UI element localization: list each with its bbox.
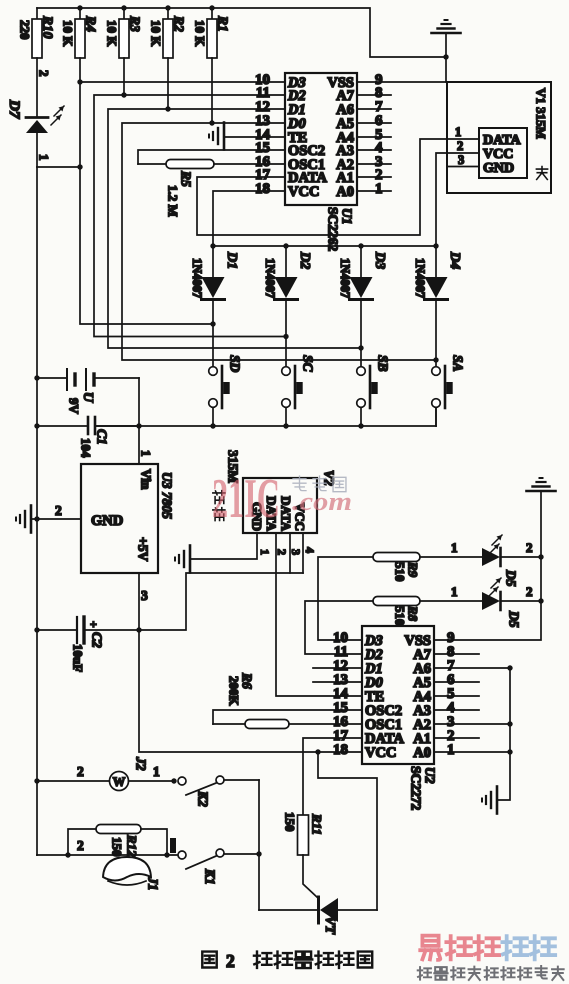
U1 pin label DATA — [288, 170, 327, 186]
wire: U1 pin 5 stub — [357, 136, 391, 138]
svg-text:10 K: 10 K — [61, 20, 76, 47]
resistor R8 (510) — [305, 597, 421, 655]
U2 pin label DATA — [365, 731, 404, 747]
node: J2/K2 junction — [171, 778, 176, 783]
U1 pin label A1 — [336, 170, 354, 186]
U1 pin number 1 — [375, 181, 383, 197]
node: diode bus junction — [433, 243, 438, 248]
U2 pin label A6 — [413, 661, 431, 677]
receiver pin 3 wire — [289, 533, 303, 573]
node: address bus junction — [507, 721, 512, 726]
wire: U1 pin 6 stub — [357, 122, 391, 124]
node: bottom bus junction — [358, 423, 363, 428]
U2 pin number 2 — [447, 728, 455, 744]
node: R4 bottom junction — [77, 79, 82, 84]
svg-text:SC: SC — [300, 355, 315, 373]
node: address bus junction — [507, 665, 512, 670]
svg-text:10 K: 10 K — [193, 20, 208, 47]
U2 pin number 15 — [333, 700, 348, 716]
svg-text:U3 7805: U3 7805 — [159, 472, 174, 519]
U2 pin number 17 — [333, 728, 349, 744]
node: junction on D4 column — [433, 357, 438, 362]
switch K1 — [178, 849, 259, 885]
svg-text:10uF: 10uF — [71, 644, 86, 672]
U1 pin label A7 — [336, 88, 354, 104]
U1 pin label D0 — [287, 116, 306, 132]
svg-text:2: 2 — [275, 549, 289, 555]
svg-text:C2: C2 — [89, 632, 104, 648]
wire: left ground rail — [36, 167, 38, 855]
resistor R10 (220) — [18, 8, 56, 116]
U2 pin number 9 — [447, 630, 455, 646]
U1 pin number 15 — [255, 140, 270, 156]
wire: U2 pin 1 to address ground bus — [434, 751, 510, 753]
svg-text:.com: .com — [292, 487, 352, 516]
pushbutton key SC — [282, 355, 316, 426]
U2 pin number 11 — [334, 644, 348, 660]
svg-text:A0: A0 — [413, 745, 431, 761]
U1 pin label A0 — [336, 184, 354, 200]
U1 pin number 2 — [375, 167, 383, 183]
svg-text:R2: R2 — [171, 15, 186, 32]
svg-text:2: 2 — [226, 951, 235, 971]
node: rail/C1 junction — [34, 423, 39, 428]
U1 pin number 8 — [375, 85, 383, 101]
svg-text:VCC: VCC — [483, 147, 513, 162]
pushbutton key SB — [357, 355, 391, 426]
svg-text:150: 150 — [110, 837, 125, 857]
receiver label DATA — [279, 496, 294, 532]
wire: U2 pin 4 stub — [434, 709, 479, 711]
U2 reference label — [408, 766, 437, 811]
svg-text:3: 3 — [141, 588, 148, 603]
svg-text:K1: K1 — [202, 868, 217, 885]
U1 pin label VSS — [327, 75, 354, 91]
U1 pin number 17 — [255, 167, 271, 183]
U2 pin label D1 — [364, 661, 383, 677]
wire: +5V down to U2 VCC pin 18 — [139, 630, 362, 752]
svg-text:4: 4 — [303, 547, 317, 553]
U1 pin number 14 — [255, 127, 271, 143]
svg-text:C1: C1 — [94, 429, 109, 445]
U1 pin label VCC — [288, 184, 319, 200]
battery U 9V — [37, 369, 139, 415]
svg-text:150: 150 — [283, 812, 298, 832]
svg-text:3: 3 — [458, 153, 464, 167]
node: rail/C2 junction — [34, 627, 39, 632]
LED D5 (lower) — [420, 578, 541, 628]
wire: U2 pin 13 stub — [313, 681, 362, 683]
node: junction D7 row / R4 column — [77, 164, 82, 169]
svg-text:2: 2 — [457, 139, 463, 153]
U1 pin label OSC1 — [288, 157, 325, 173]
svg-text:2: 2 — [55, 503, 62, 518]
U2 pin number 8 — [447, 644, 455, 660]
U1 pin number 10 — [255, 72, 270, 88]
svg-text:1: 1 — [37, 154, 52, 161]
svg-text:D7: D7 — [6, 99, 22, 119]
ground (U2 address sideways earth) — [482, 787, 497, 814]
node: diode bus junction — [358, 243, 363, 248]
U2 pin label D2 — [364, 647, 383, 663]
wire: U2 pin 5 stub — [434, 695, 479, 697]
pushbutton key SD — [209, 355, 243, 426]
U2 pin number 10 — [333, 630, 348, 646]
U2 pin number 16 — [333, 714, 349, 730]
svg-text:DATA: DATA — [483, 133, 521, 148]
receiver label VCC — [293, 503, 308, 531]
resistor R12 (150) parallel J1 — [68, 825, 167, 858]
receiver module V2 315M body — [243, 478, 317, 533]
svg-text:R11: R11 — [310, 813, 325, 835]
U2 pin label D0 — [364, 675, 383, 691]
svg-text:1: 1 — [375, 181, 383, 197]
switch K2 — [178, 776, 259, 807]
wire: U1 pin 3 stub — [357, 163, 391, 165]
U2 pin number 18 — [333, 742, 348, 758]
svg-text:1: 1 — [447, 742, 455, 758]
node: diode bus junction — [210, 243, 215, 248]
receiver label GND — [250, 502, 265, 531]
U1 pin number 4 — [375, 140, 383, 156]
U1 pin number 6 — [375, 113, 383, 129]
U2 pin label A4 — [413, 689, 431, 705]
svg-text:D4: D4 — [447, 251, 462, 269]
wire: U1 pin 8 stub — [357, 94, 391, 96]
node: R2 bottom junction — [165, 106, 170, 111]
U1 reference label — [325, 207, 354, 252]
resistor R1 (10K) — [193, 8, 231, 123]
svg-text:+5V: +5V — [135, 537, 150, 561]
wire: U1 pin 14 TE to ground — [224, 136, 285, 138]
U1 pin label A2 — [336, 157, 354, 173]
wire: battery plus bus to keys — [95, 408, 436, 427]
wire: D7 cathode return to R4 column — [37, 166, 80, 168]
svg-text:104: 104 — [79, 438, 94, 458]
U1 pin label A5 — [336, 116, 354, 132]
svg-text:18: 18 — [333, 742, 348, 758]
svg-text:R4: R4 — [83, 15, 98, 32]
svg-text:SB: SB — [375, 355, 390, 372]
U1 pin number 7 — [375, 99, 383, 115]
svg-text:U1: U1 — [339, 208, 354, 225]
diode D3 1N4007 — [338, 246, 387, 367]
node: address bus junction — [507, 749, 512, 754]
node: junction on D1 column — [210, 321, 215, 326]
U1 pin label A4 — [336, 130, 354, 146]
U1 pin label A6 — [336, 102, 354, 118]
node: +5V junction at C2 — [136, 627, 141, 632]
node: bottom bus junction — [283, 423, 288, 428]
svg-text:R10: R10 — [40, 15, 55, 39]
svg-text:V1 315M: V1 315M — [534, 88, 549, 139]
U2 pin label A2 — [413, 717, 431, 733]
svg-text:U2: U2 — [422, 767, 437, 784]
wire: U2 pin 15 OSC2 — [213, 710, 362, 724]
op-amp U1 SC2262 encoder IC body — [285, 73, 357, 205]
svg-text:R3: R3 — [127, 15, 142, 32]
wire: U3 pin 2 GND to rail — [31, 503, 81, 519]
wire: U1 pin 10 to diode D1 / key net — [80, 82, 285, 324]
capacitor C2 (10uF electrolytic) — [37, 617, 139, 672]
wire: U1 pin 12 to diode D3 / key net — [108, 109, 361, 348]
U2 pin number 3 — [447, 714, 455, 730]
U3 reference label — [159, 472, 174, 519]
svg-text:2: 2 — [37, 70, 52, 77]
svg-text:2: 2 — [77, 764, 84, 779]
svg-text:1: 1 — [139, 450, 154, 457]
svg-text:D5: D5 — [506, 610, 521, 628]
svg-text:21IC: 21IC — [212, 468, 280, 530]
svg-text:1: 1 — [451, 540, 458, 555]
U1 pin number 9 — [375, 72, 383, 88]
U2 pin label OSC1 — [365, 717, 402, 733]
U2 pin label OSC2 — [365, 703, 402, 719]
op-amp U2 SC2272 decoder IC body — [362, 626, 434, 764]
wire: U1 pin 2 stub — [357, 176, 391, 178]
svg-text:D5: D5 — [503, 569, 518, 587]
wire: U2 pin 17 DATA to R11 — [303, 738, 362, 815]
svg-text:3: 3 — [289, 549, 303, 555]
U2 pin label A1 — [413, 731, 431, 747]
svg-text:R12: R12 — [125, 834, 140, 857]
svg-text:SC2272: SC2272 — [408, 766, 423, 811]
pushbutton key SA — [432, 355, 466, 426]
wire: VCC diode bus — [213, 245, 436, 247]
resistor R11 (150) — [283, 812, 325, 855]
wire: U2 pin 7 to address ground bus — [434, 667, 510, 669]
LED D7 — [6, 99, 64, 167]
svg-text:SD: SD — [227, 355, 242, 373]
U1 pin label D1 — [287, 102, 306, 118]
U2 pin number 6 — [447, 672, 455, 688]
U1 pin number 12 — [255, 99, 270, 115]
node: K1 row junction — [256, 851, 261, 856]
svg-text:VCC: VCC — [365, 745, 396, 761]
wire: VCC feed to thyristor anode — [318, 752, 377, 910]
capacitor C1 (104) — [37, 417, 139, 458]
node: rail/battery junction — [34, 375, 39, 380]
receiver module name 315M jieshou — [213, 450, 241, 521]
transmitter pin 3 wire (GND) to case — [447, 153, 479, 167]
svg-text:J2: J2 — [133, 756, 148, 771]
node: diode bus junction — [283, 243, 288, 248]
svg-text:+: + — [90, 617, 97, 631]
U2 pin number 5 — [447, 686, 455, 702]
receiver pin 2 wire DATA to U2 pin 14 — [275, 533, 362, 696]
wire: U1 pin 13 to diode D4 / key net — [122, 123, 436, 360]
node: junction on D3 column — [358, 345, 363, 350]
node: top bus junction at R1 — [209, 5, 214, 10]
node: bottom bus junction — [136, 423, 141, 428]
wire: U2 pin 12 stub — [313, 667, 362, 669]
resistor R2 (10K) — [149, 8, 187, 109]
watermark 21IC center — [212, 468, 280, 530]
node: R12 left junction — [65, 852, 70, 857]
svg-text:2: 2 — [77, 838, 84, 853]
svg-text:GND: GND — [91, 513, 123, 529]
wire: U1 pin 4 stub — [357, 149, 391, 151]
U2 pin label D3 — [364, 633, 383, 649]
svg-text:2: 2 — [526, 584, 533, 599]
svg-text:D3: D3 — [372, 251, 387, 269]
motor J2 (W) — [37, 756, 174, 791]
svg-text:1: 1 — [258, 549, 272, 555]
wire: U1 pin 7 stub — [357, 108, 391, 110]
wire: U1 pin 18 VCC to diode bus — [213, 191, 285, 246]
U2 pin number 1 — [447, 742, 455, 758]
U1 pin number 11 — [256, 85, 270, 101]
svg-text:2: 2 — [526, 540, 533, 555]
ground (U3 GND sideways earth) — [16, 506, 31, 533]
svg-text:1.2 M: 1.2 M — [166, 185, 181, 217]
thyristor VT — [259, 897, 377, 935]
resistor R5 (1.2M) between OSC2 and OSC1 — [138, 160, 285, 217]
svg-text:1N4007: 1N4007 — [190, 258, 204, 298]
watermark yiditop logo bottom right — [418, 936, 564, 980]
receiver label DATA — [264, 496, 279, 532]
ground (LED cathode earth, top) — [527, 478, 556, 491]
svg-text:1: 1 — [153, 764, 160, 779]
receiver reference V2 — [321, 470, 336, 486]
svg-text:10 K: 10 K — [105, 20, 120, 47]
connector mark at J1 right — [170, 838, 176, 853]
svg-text:VT: VT — [322, 916, 337, 935]
U2 pin label A0 — [413, 745, 431, 761]
U1 pin number 13 — [255, 113, 270, 129]
caption: figure 2 remote controller schematic — [202, 951, 372, 971]
U1 pin number 16 — [255, 154, 271, 170]
svg-text:9V: 9V — [67, 398, 82, 415]
svg-text:1N4007: 1N4007 — [338, 258, 352, 298]
wire: R11 to VT gate — [303, 855, 318, 898]
ground (receiver sideways earth) — [175, 546, 190, 573]
wire: Vin column battery to U3 pin1 — [139, 378, 154, 464]
node: top bus junction at R2 — [165, 5, 170, 10]
U1 pin number 3 — [375, 154, 383, 170]
svg-text:18: 18 — [255, 181, 270, 197]
LED D5 (upper) — [420, 535, 541, 587]
node: pin 1 label of D7 branch — [37, 154, 52, 161]
wire: U2 pin 8 stub — [434, 653, 479, 655]
wire: U1 pin 9 VSS to ground net — [357, 81, 446, 83]
U2 pin number 7 — [447, 658, 455, 674]
transmitter module V1315M outer case — [447, 82, 551, 193]
U1 pin label OSC2 — [288, 143, 325, 159]
diode D4 1N4007 — [413, 246, 462, 367]
node: bottom bus junction — [210, 423, 215, 428]
svg-text:SC2262: SC2262 — [325, 207, 340, 252]
svg-text:510: 510 — [393, 562, 408, 582]
node: R12 right junction — [164, 852, 169, 857]
svg-text:A0: A0 — [336, 184, 354, 200]
wire: U2 pin 3 to address ground bus — [434, 723, 510, 725]
resistor R6 (200K) between OSC2 and OSC1 — [213, 672, 362, 729]
receiver pin 4 wire VCC — [303, 533, 317, 573]
node: rail/J2 junction — [34, 778, 39, 783]
diode D2 1N4007 — [263, 246, 312, 367]
svg-text:K2: K2 — [195, 790, 210, 807]
wire: U1 pin 11 to diode D2 / key net — [94, 95, 286, 337]
U2 pin number 12 — [333, 658, 348, 674]
wire: U1 pin 15 OSC2 — [138, 150, 285, 164]
node: pin 2 label of D7 branch — [37, 70, 52, 77]
node: R1 bottom junction — [209, 120, 214, 125]
U2 pin number 4 — [447, 700, 455, 716]
svg-text:1N4007: 1N4007 — [413, 258, 427, 298]
svg-text:D2: D2 — [297, 251, 312, 269]
wire: U1 pin 17 DATA to transmitter module DATA — [197, 139, 447, 235]
transmitter pin 1 wire (DATA) — [447, 125, 479, 139]
U1 pin number 5 — [375, 127, 383, 143]
node: VCC row junction to VT feed — [315, 749, 320, 754]
ground (top right earth) — [432, 20, 461, 82]
wire: U3 pin 3 +5V output — [139, 573, 148, 630]
wire: LED cathode bus to U2 VSS — [434, 491, 541, 640]
transmitter module pin box DATA/VCC/GND — [479, 128, 527, 178]
node: R3 bottom junction — [121, 92, 126, 97]
svg-text:1: 1 — [451, 584, 458, 599]
U2 pin label A7 — [413, 647, 431, 663]
U1 pin number 18 — [255, 181, 270, 197]
U1 pin label D2 — [287, 88, 306, 104]
svg-text:R1: R1 — [215, 15, 230, 32]
wire: K2 to VT cathode column — [258, 780, 260, 910]
wire: U2 pin 6 stub — [434, 681, 479, 683]
wire: rail to J1 row — [37, 838, 178, 855]
ground (TE sideways earth) — [209, 123, 224, 150]
voltage regulator U3 7805 body — [81, 464, 158, 573]
svg-text:1: 1 — [455, 125, 461, 139]
svg-text:SA: SA — [450, 355, 465, 372]
U2 pin label A3 — [413, 703, 431, 719]
svg-text:510: 510 — [393, 606, 408, 626]
transmitter module label V1 315M fa — [534, 88, 549, 179]
svg-text:10 K: 10 K — [149, 20, 164, 47]
wire: top ground bus — [37, 8, 446, 57]
receiver pin 1 wire to ground — [190, 533, 272, 559]
U2 pin label VCC — [365, 745, 396, 761]
svg-text:1N4007: 1N4007 — [263, 258, 277, 298]
node: cathode bus junctions — [538, 554, 543, 603]
U1 pin label A3 — [336, 143, 354, 159]
U2 pin label A5 — [413, 675, 431, 691]
svg-text:Vin: Vin — [138, 469, 153, 490]
svg-text:W: W — [113, 775, 126, 789]
svg-text:200K: 200K — [227, 676, 242, 707]
transmitter pin 2 wire (VCC) to diode bus — [436, 139, 479, 246]
svg-text:GND: GND — [483, 161, 514, 176]
node: rail/GND junction — [34, 516, 39, 521]
U2 pin label TE — [365, 689, 384, 705]
U2 pin label VSS — [404, 633, 431, 649]
node: top bus junction at R3 — [121, 5, 126, 10]
wire: U1 pin 1 stub — [357, 190, 391, 192]
resistor R9 (510) — [318, 553, 421, 641]
resistor R3 (10K) — [105, 8, 143, 95]
node: junction on D2 column — [283, 334, 288, 339]
U2 pin number 14 — [333, 686, 349, 702]
wire: U2 pin 2 stub — [434, 737, 479, 739]
diode D1 1N4007 — [190, 246, 239, 367]
U1 pin label D3 — [287, 75, 306, 91]
svg-text:J1: J1 — [145, 876, 160, 891]
node: junction top bus / ground stem — [443, 54, 448, 59]
U2 pin number 13 — [333, 672, 348, 688]
node: top bus junction at R4 — [77, 5, 82, 10]
svg-text:220: 220 — [18, 20, 33, 40]
svg-text:D1: D1 — [224, 251, 239, 269]
